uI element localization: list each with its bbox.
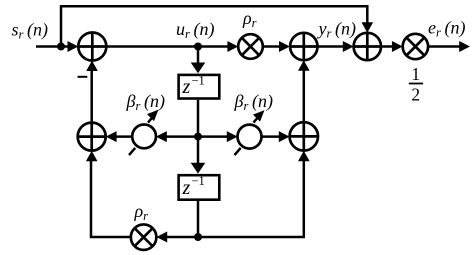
wire: delay Z2 down to bottom rail node C <box>197 201 200 237</box>
arrowhead output e_r(n) <box>459 41 470 52</box>
svg-text:ρr: ρr <box>134 201 149 223</box>
wire: delay Z1 down to node B <box>197 100 200 137</box>
wire: gain G1 to adder S4 <box>114 135 132 138</box>
arrowhead into multiplier M3 right <box>156 232 167 243</box>
arrowhead into adder S2 left <box>279 41 290 52</box>
wire: multiplier M1 to adder S2 <box>263 45 282 48</box>
wire: adder S1 output to node U <box>106 45 198 48</box>
wire: gain G2 to adder S5 <box>262 135 283 138</box>
arrowhead into adder S5 bottom <box>298 151 310 162</box>
arrowhead into adder S5 left <box>279 131 290 142</box>
gain G1 (variable multiplier beta) <box>129 110 159 156</box>
svg-text:sr (n): sr (n) <box>12 20 48 42</box>
wire: multiplier M3 output left then up to adder S4 bottom input <box>91 160 131 237</box>
svg-text:yr (n): yr (n) <box>317 19 356 41</box>
svg-text:z: z <box>182 76 191 98</box>
adder S5 <box>290 122 318 150</box>
svg-text:βr (n): βr (n) <box>234 91 273 113</box>
arrowhead into delay Z2 top <box>191 163 206 174</box>
wire: node B right into gain G2 <box>198 135 230 138</box>
node B junction dot <box>194 133 202 141</box>
wire: adder S5 output up to adder S2 bottom input <box>303 69 306 122</box>
arrowhead into adder S3 left <box>343 41 354 52</box>
arrowhead into adder S1 bottom (minus input) <box>86 61 98 72</box>
arrowhead into delay Z1 top <box>191 63 206 74</box>
arrowhead into adder S2 bottom <box>298 60 310 70</box>
arrowhead into multiplier M2 <box>392 41 403 52</box>
wire: node B down into delay Z2 <box>197 137 200 165</box>
arrowhead into adder S1 left <box>68 41 79 52</box>
adder S3 <box>354 33 381 60</box>
node U junction dot u_r(n) <box>194 43 202 51</box>
arrowhead into adder S3 top (feedforward) <box>362 22 374 33</box>
arrowhead into gain G1 right <box>156 131 167 142</box>
wire: node B left into gain G1 <box>164 135 198 138</box>
delay Z1 (z^-1) <box>179 73 220 98</box>
gain G2 (variable multiplier beta) <box>235 110 265 155</box>
arrowhead into adder S4 right <box>106 131 117 142</box>
arrowhead into adder S4 bottom <box>86 151 98 162</box>
wire: node C right then up to adder S5 bottom input <box>198 160 304 237</box>
arrowhead into gain G2 left <box>227 131 238 142</box>
svg-text:ur (n): ur (n) <box>176 19 214 41</box>
node A junction dot <box>57 43 65 51</box>
adder S1 <box>78 33 106 61</box>
svg-text:er (n): er (n) <box>428 18 465 40</box>
svg-text:βr (n): βr (n) <box>126 91 165 113</box>
svg-text:z: z <box>182 177 191 199</box>
node C junction dot <box>194 233 202 241</box>
wire: node U down into delay Z1 <box>197 47 200 66</box>
wire: adder S3 to multiplier M2 <box>381 45 395 48</box>
wire: node U to multiplier M1 <box>198 45 230 48</box>
arrowhead into multiplier M1 <box>227 41 238 52</box>
wire: node C left into multiplier M3 <box>165 236 198 239</box>
wire: adder S4 output up to adder S1 minus input <box>90 69 93 123</box>
svg-text:−1: −1 <box>192 73 205 87</box>
multiplier M2 <box>403 34 428 59</box>
delay Z2 (z^-1) <box>179 174 220 200</box>
wire: input s_r(n) to adder S1 <box>36 45 70 48</box>
svg-text:−1: −1 <box>192 174 205 188</box>
wire: feedforward from node A up to top rail and down to adder S3 <box>61 6 367 46</box>
wire: adder S2 to adder S3 <box>317 45 346 48</box>
svg-text:2: 2 <box>411 85 420 105</box>
svg-text:ρr: ρr <box>242 8 257 30</box>
multiplier M1 <box>238 34 263 59</box>
wire: multiplier M2 output e_r(n) <box>428 45 462 48</box>
label minus sign at S1 input <box>78 76 88 78</box>
multiplier M3 <box>131 224 157 250</box>
svg-text:1: 1 <box>411 64 420 84</box>
adder S2 <box>290 33 317 60</box>
label fraction 1/2 under M2 <box>409 64 423 105</box>
adder S4 <box>78 123 106 151</box>
